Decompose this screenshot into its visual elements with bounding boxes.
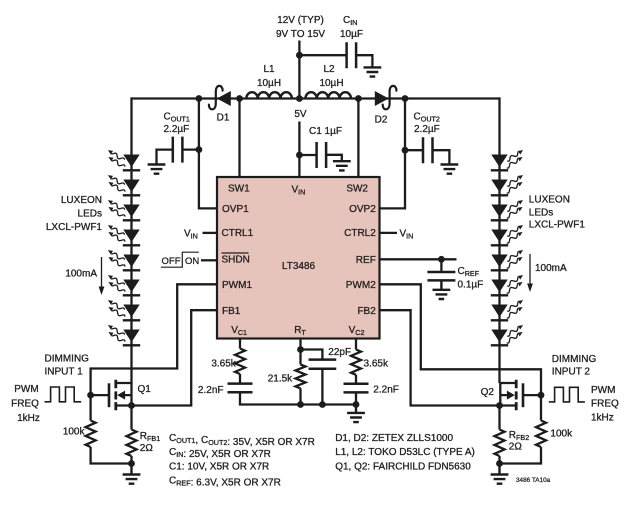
LED left #8	[108, 325, 140, 345]
wire COUT2 to ground	[433, 150, 450, 164]
svg-text:0.1µF: 0.1µF	[458, 279, 484, 290]
wire 12V input drop	[298, 41, 300, 99]
wire CIN branch	[299, 54, 346, 56]
node RT junction	[297, 346, 304, 353]
svg-text:D2: D2	[375, 115, 388, 126]
LED right #8	[491, 325, 523, 345]
wire 3.65k to cap (VC2)	[355, 375, 357, 384]
svg-text:Q1: Q1	[138, 384, 152, 395]
svg-text:COUT1: COUT1	[164, 112, 190, 124]
svg-text:1kHz: 1kHz	[17, 413, 40, 424]
svg-text:REF: REF	[356, 255, 376, 266]
wire 3.65k to cap (VC1)	[239, 374, 241, 384]
LED right #6	[491, 275, 523, 295]
node SW2 junction	[355, 95, 362, 102]
node Q2 source junction	[496, 402, 503, 409]
LED right #1	[491, 150, 523, 170]
wire comp ground rail	[240, 392, 356, 404]
diode D1	[209, 86, 231, 109]
capacitor COUT1	[173, 137, 183, 163]
svg-text:INPUT 2: INPUT 2	[552, 367, 591, 378]
capacitor 2.2nF (VC1)	[228, 384, 253, 393]
svg-text:LEDs: LEDs	[78, 209, 102, 220]
svg-text:1kHz: 1kHz	[591, 412, 614, 423]
wire SW2 pin	[357, 99, 359, 178]
wire 5V to VIN pin	[298, 122, 300, 178]
capacitor C1	[317, 142, 327, 168]
node Q2 ground junction	[496, 460, 503, 467]
LED left #5	[108, 250, 140, 270]
ground CIN	[364, 67, 382, 76]
svg-text:LEDs: LEDs	[529, 207, 553, 218]
svg-text:3.65k: 3.65k	[211, 358, 236, 369]
node D1 cathode junction	[196, 95, 203, 102]
svg-text:CIN: 25V, X5R OR X7R: CIN: 25V, X5R OR X7R	[169, 447, 271, 460]
svg-text:L2: L2	[323, 64, 335, 75]
LED right #3	[491, 200, 523, 220]
ground Q2 source	[491, 464, 509, 484]
svg-text:CREF: 6.3V, X5R OR X7R: CREF: 6.3V, X5R OR X7R	[169, 476, 281, 489]
wire RT pin	[299, 339, 301, 350]
wire PWM1 to Q1 gate	[91, 284, 217, 395]
wire main top rail	[132, 97, 500, 99]
svg-text:VIN: VIN	[400, 228, 414, 240]
svg-text:2.2µF: 2.2µF	[164, 124, 190, 135]
LED left #4	[108, 225, 140, 245]
wire right LED string	[498, 97, 500, 383]
svg-text:SW2: SW2	[346, 183, 368, 194]
ground Q1 source	[123, 464, 141, 484]
LED left #2	[108, 175, 140, 195]
wire SHDN stub	[201, 259, 217, 261]
svg-text:LT3486: LT3486	[282, 261, 316, 272]
op-amp U1 LT3486 body	[217, 177, 380, 339]
svg-text:SHDN: SHDN	[222, 255, 250, 266]
LED left #1	[108, 150, 140, 170]
svg-text:5V: 5V	[294, 109, 307, 120]
svg-text:OVP2: OVP2	[349, 204, 376, 215]
wire COUT1 lead	[182, 148, 199, 150]
svg-text:2.2µF: 2.2µF	[414, 124, 440, 135]
inductor L1	[246, 92, 292, 98]
LED left #3	[108, 200, 140, 220]
wire CTRL2 stub	[380, 232, 398, 234]
svg-text:3.65k: 3.65k	[364, 358, 389, 369]
symbol PWM square wave right	[549, 387, 585, 402]
svg-text:PWM: PWM	[14, 384, 38, 395]
arrow 100mA left	[99, 257, 105, 295]
svg-text:100k: 100k	[550, 429, 573, 440]
svg-text:FREQ: FREQ	[11, 399, 39, 410]
svg-text:PWM1: PWM1	[222, 280, 252, 291]
ground comp rail	[347, 405, 365, 423]
arrow 100mA right	[527, 254, 533, 292]
node C1 junction	[296, 152, 303, 159]
wire COUT1 to ground	[157, 150, 173, 165]
svg-text:COUT1, COUT2: 35V, X5R OR X7R: COUT1, COUT2: 35V, X5R OR X7R	[169, 433, 315, 448]
LED right #4	[491, 225, 523, 245]
svg-text:OVP1: OVP1	[222, 204, 249, 215]
svg-text:21.5k: 21.5k	[268, 374, 293, 385]
svg-text:D1, D2: ZETEX ZLLS1000: D1, D2: ZETEX ZLLS1000	[335, 433, 453, 444]
svg-text:Q1, Q2: FAIRCHILD FDN5630: Q1, Q2: FAIRCHILD FDN5630	[335, 462, 471, 473]
ground COUT1	[148, 165, 166, 174]
resistor 21.5k (RT)	[296, 350, 306, 405]
svg-text:DIMMING: DIMMING	[552, 354, 597, 365]
wire CTRL1 stub	[203, 232, 218, 234]
svg-text:LXCL-PWF1: LXCL-PWF1	[529, 220, 586, 231]
wire SW1 pin	[238, 99, 240, 178]
node L1-L2 supply junction	[296, 95, 303, 102]
wire FB2 to Q2 source	[380, 310, 500, 405]
ground C1	[333, 161, 351, 170]
svg-text:C1: 10V, X5R OR X7R: C1: 10V, X5R OR X7R	[169, 462, 269, 473]
svg-text:PWM: PWM	[591, 385, 615, 396]
svg-text:100mA: 100mA	[65, 269, 97, 280]
svg-text:PWM2: PWM2	[346, 280, 376, 291]
node 21.5k bottom	[297, 401, 304, 408]
inductor L2	[305, 92, 351, 98]
wire CREF lead	[440, 259, 442, 272]
node Q2 gate junction	[538, 392, 545, 399]
wire 2.2nF to rail (VC2)	[355, 392, 357, 404]
wire PWM2 to Q2 gate	[380, 284, 542, 395]
wire OVP1 branch	[199, 99, 217, 209]
svg-text:2.2nF: 2.2nF	[198, 385, 224, 396]
wire left LED string	[130, 97, 132, 383]
ground COUT2	[441, 165, 459, 174]
wire OVP2 branch	[380, 99, 406, 209]
svg-text:ON: ON	[185, 256, 199, 267]
capacitor COUT2	[423, 137, 433, 163]
wire COUT2 lead	[405, 149, 423, 151]
symbol OFF/ON step	[161, 252, 199, 267]
node SW1 junction	[236, 95, 243, 102]
resistor 100k right	[500, 395, 547, 463]
resistor RFB1	[127, 406, 137, 464]
svg-text:100mA: 100mA	[535, 263, 567, 274]
svg-text:9V TO 15V: 9V TO 15V	[276, 29, 325, 40]
svg-text:3486 TA10a: 3486 TA10a	[516, 477, 551, 484]
svg-text:RFB2: RFB2	[509, 430, 529, 442]
wire 22pF branch	[301, 350, 323, 360]
svg-text:L1, L2: TOKO D53LC (TYPE A): L1, L2: TOKO D53LC (TYPE A)	[335, 447, 475, 458]
svg-text:100k: 100k	[63, 427, 86, 438]
svg-text:FREQ: FREQ	[591, 399, 619, 410]
svg-text:LUXEON: LUXEON	[529, 194, 570, 205]
svg-text:2Ω: 2Ω	[509, 441, 523, 452]
svg-text:INPUT 1: INPUT 1	[45, 366, 84, 377]
LED right #2	[491, 175, 523, 195]
svg-text:FB2: FB2	[357, 306, 376, 317]
resistor 3.65k (VC2)	[351, 339, 361, 375]
svg-text:SW1: SW1	[228, 183, 250, 194]
svg-text:2Ω: 2Ω	[140, 443, 154, 454]
svg-text:Q2: Q2	[481, 387, 495, 398]
svg-text:CTRL2: CTRL2	[344, 228, 376, 239]
svg-text:LXCL-PWF1: LXCL-PWF1	[46, 222, 103, 233]
node Q1 gate junction	[87, 392, 94, 399]
wire C1 to ground	[326, 155, 342, 161]
overline SHDN	[222, 252, 249, 254]
svg-text:CREF: CREF	[458, 266, 480, 278]
svg-text:DIMMING: DIMMING	[45, 354, 90, 365]
capacitor 2.2nF (VC2)	[344, 384, 369, 393]
svg-text:RFB1: RFB1	[140, 431, 160, 443]
svg-text:12V (TYP): 12V (TYP)	[277, 15, 324, 26]
LED left #6	[108, 275, 140, 295]
node 22pF bottom	[319, 401, 326, 408]
svg-text:10µH: 10µH	[319, 78, 343, 89]
svg-text:CIN: CIN	[343, 15, 357, 27]
capacitor CREF	[427, 272, 455, 280]
wire CIN to ground	[356, 55, 372, 67]
node COUT1 junction	[196, 146, 203, 153]
node Q1 ground junction	[128, 460, 135, 467]
resistor 3.65k (VC1)	[235, 339, 245, 375]
ground CREF	[433, 280, 451, 299]
node REF/CREF junction	[438, 256, 445, 263]
svg-text:D1: D1	[217, 113, 230, 124]
wire REF	[380, 258, 457, 260]
svg-text:10µF: 10µF	[340, 29, 363, 40]
LED left #7	[108, 300, 140, 320]
wire FB1 to Q1 source	[132, 310, 218, 405]
node Q1 source junction	[128, 402, 135, 409]
transistor Q2	[500, 380, 541, 411]
diode D2	[375, 86, 397, 109]
svg-text:2.2nF: 2.2nF	[373, 385, 399, 396]
svg-text:CTRL1: CTRL1	[222, 228, 254, 239]
svg-text:22pF: 22pF	[328, 347, 351, 358]
svg-text:L1: L1	[263, 64, 275, 75]
svg-text:VIN: VIN	[184, 228, 198, 240]
capacitor CIN	[347, 42, 357, 68]
node COUT2 junction	[402, 147, 409, 154]
symbol PWM square wave left	[45, 387, 82, 402]
capacitor 22pF	[309, 360, 337, 369]
svg-text:LUXEON: LUXEON	[61, 195, 102, 206]
LED right #7	[491, 300, 523, 320]
svg-text:C1 1µF: C1 1µF	[309, 126, 342, 137]
resistor 100k left	[86, 395, 132, 463]
svg-text:10µH: 10µH	[257, 78, 281, 89]
wire 22pF to rail	[321, 369, 323, 405]
node 12V/CIN junction	[296, 52, 303, 59]
LED right #5	[491, 250, 523, 270]
svg-text:OFF: OFF	[162, 256, 181, 267]
resistor RFB2	[495, 406, 505, 464]
wire C1 lead	[299, 154, 316, 156]
node D2 cathode junction	[402, 95, 409, 102]
transistor Q1	[91, 380, 132, 411]
svg-text:COUT2: COUT2	[414, 112, 440, 124]
svg-text:FB1: FB1	[222, 306, 241, 317]
node comp ground	[353, 401, 360, 408]
